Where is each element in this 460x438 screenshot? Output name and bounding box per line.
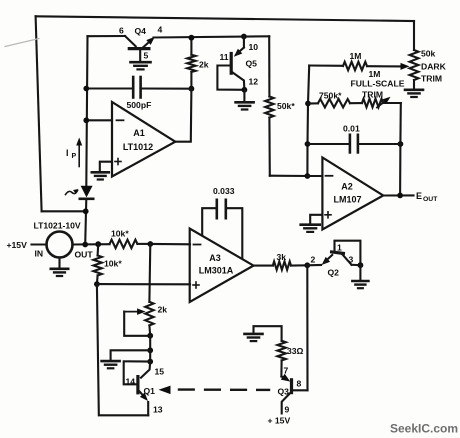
node dot 10k divider top [95, 241, 101, 247]
wire bottom return loop [97, 284, 148, 415]
wire inner-left vertical node column [86, 36, 87, 186]
wire 50k* to A2 inverting node [270, 175, 308, 177]
svg-text:10k*: 10k* [104, 259, 122, 269]
op-amp A3 LM301A [190, 229, 254, 303]
resistor 33ohm [277, 341, 285, 361]
svg-text:OUT: OUT [75, 250, 94, 260]
svg-text:1M: 1M [350, 51, 362, 61]
svg-text:3k: 3k [277, 252, 287, 262]
wire A1 output to feedback column [175, 89, 191, 142]
potentiometer 50k dark trim [410, 50, 419, 80]
A3 minus sign [194, 244, 201, 246]
node dot 0.01 junction [305, 141, 311, 147]
svg-text:0.033: 0.033 [213, 186, 235, 196]
svg-text:2k: 2k [199, 60, 209, 70]
node dot A3 inverting branch [147, 241, 153, 247]
node dot feedback-cap right [398, 141, 404, 147]
svg-text:I: I [66, 148, 69, 158]
capacitor 0.033 [202, 208, 217, 235]
wire A3 minus node down to 2k pot [148, 244, 151, 302]
potentiometer 2k [145, 302, 153, 326]
A3 plus sign [193, 284, 199, 286]
wire to A3 noninverting input [97, 283, 190, 285]
wire Q2 node down to Q3 base [306, 265, 308, 390]
node dot 500pF left [83, 86, 89, 92]
svg-text:500pF: 500pF [127, 100, 152, 110]
svg-text:2k: 2k [158, 305, 168, 315]
op-amp A1 LT1012 [112, 102, 175, 177]
ground under dark trim [405, 89, 423, 92]
svg-text:13: 13 [153, 405, 163, 415]
svg-text:5: 5 [144, 51, 149, 61]
svg-text:Q3: Q3 [278, 387, 290, 397]
ground at A1 plus input [92, 171, 109, 174]
node dot wiper tie [147, 333, 153, 339]
svg-text:+ 15V: + 15V [268, 416, 291, 426]
svg-text:10: 10 [249, 42, 259, 52]
node dot 2k top [189, 35, 195, 41]
node dot 2k bottom [189, 86, 195, 92]
svg-text:LT1021-10V: LT1021-10V [34, 221, 81, 231]
node dot A2 inverting input [305, 173, 311, 179]
wire A2 noninverting to ground [310, 215, 322, 224]
ground under LT1021 [58, 258, 60, 269]
svg-text:50k*: 50k* [277, 101, 295, 111]
resistor 1M [309, 64, 343, 66]
2k pot wiper arrow [124, 311, 141, 313]
svg-text:LM301A: LM301A [199, 266, 234, 276]
ground under Q5 [243, 90, 245, 102]
svg-text:8: 8 [297, 379, 302, 389]
resistor 3k [273, 261, 291, 269]
A2 plus sign [325, 214, 331, 216]
wire top row to 50k* [268, 36, 270, 96]
wire ground branch Q1 [111, 350, 151, 360]
svg-text:IN: IN [35, 249, 44, 259]
svg-text:2: 2 [311, 255, 316, 265]
svg-text:15: 15 [155, 367, 165, 377]
wire top border [36, 16, 414, 21]
node dot photodiode column on OUT line [82, 242, 88, 248]
svg-text:FULL-SCALE: FULL-SCALE [351, 79, 405, 89]
wire left border bottom to photodiode node [42, 210, 86, 212]
wire A2 inverting column [307, 66, 309, 177]
svg-text:0.01: 0.01 [343, 124, 360, 134]
svg-text:TRIM: TRIM [362, 90, 383, 100]
2k pot wiper loop wire [124, 312, 150, 336]
svg-text:Q1: Q1 [144, 386, 156, 396]
svg-text:Q5: Q5 [246, 59, 258, 69]
svg-text:7: 7 [284, 366, 289, 376]
node dot Q5 bottom [242, 87, 248, 93]
svg-text:Q4: Q4 [135, 26, 147, 36]
potentiometer 1M full-scale trim [362, 99, 383, 107]
svg-text:50k: 50k [421, 49, 436, 59]
svg-text:LT1012: LT1012 [123, 142, 153, 152]
node dot ground branch [147, 347, 153, 353]
wire A1 inverting input [86, 119, 112, 121]
node dot photodiode-border junction [83, 208, 89, 214]
op-amp A2 LM107 [322, 158, 383, 230]
svg-text:Q2: Q2 [328, 268, 340, 278]
resistor 10k* vertical [97, 244, 100, 255]
node dot Q5 emitter top [241, 34, 247, 40]
resistor 10k* horizontal [110, 240, 138, 248]
light squiggle at photodiode [66, 191, 78, 195]
wire 33ohm top to ground [254, 326, 282, 341]
svg-text:12: 12 [249, 77, 259, 87]
node dot A1 inverting input [83, 117, 89, 123]
A1 plus sign [115, 161, 121, 163]
transistor Q2 [307, 264, 321, 266]
svg-text:OUT: OUT [423, 196, 438, 203]
wire 2k bottom to Q1 [149, 336, 151, 362]
dashed thermal coupling arrow [159, 386, 171, 395]
ground above Q3 [245, 333, 263, 336]
wire A2 output [383, 194, 413, 196]
svg-text:A3: A3 [209, 253, 221, 263]
svg-text:33Ω: 33Ω [287, 346, 304, 356]
svg-text:TRIM: TRIM [421, 74, 442, 84]
transistor Q4 [125, 36, 136, 46]
node dot Q1 collector-base tie [147, 359, 153, 365]
svg-text:10k*: 10k* [111, 229, 129, 239]
svg-text:P: P [72, 153, 77, 160]
svg-text:3: 3 [349, 255, 354, 265]
resistor 750k* [308, 102, 318, 104]
wire 3k to Q2 node [291, 264, 307, 266]
A1 minus sign [117, 119, 124, 121]
ground near Q1 [102, 360, 120, 363]
wire A1 noninverting input to ground [100, 162, 112, 172]
ground under Q2 [359, 265, 361, 280]
svg-text:E: E [416, 191, 422, 201]
svg-text:6: 6 [119, 26, 124, 36]
svg-text:SeekIC.com: SeekIC.com [390, 422, 458, 436]
wire left border [36, 16, 42, 211]
node dot 10k bottom [94, 281, 100, 287]
voltage reference LT1021-10V circle [47, 232, 73, 258]
svg-text:LM107: LM107 [333, 195, 361, 205]
transistor Q5 [243, 37, 245, 48]
svg-text:4: 4 [158, 25, 163, 35]
wire full-scale trim down to output node [399, 103, 402, 195]
resistor 2k [190, 38, 192, 55]
A2 minus sign [326, 175, 333, 177]
svg-text:DARK: DARK [421, 62, 447, 72]
svg-text:14: 14 [126, 377, 136, 387]
node dot A2 output [397, 193, 403, 199]
svg-text:11: 11 [220, 52, 229, 62]
wire photodiode cathode to node [85, 199, 86, 245]
svg-text:A2: A2 [341, 182, 353, 192]
wire A2 inverting input [307, 175, 322, 177]
wire right border down to dark trim [413, 21, 415, 50]
svg-text:A1: A1 [133, 128, 145, 138]
svg-text:1M: 1M [369, 69, 381, 79]
node dot Q2 right [358, 262, 364, 268]
capacitor 0.01 [308, 143, 350, 145]
node dot 750k junction [305, 101, 311, 107]
wire LT1021 output line [73, 243, 110, 245]
transistor Q1 [141, 362, 150, 378]
svg-text:+15V: +15V [7, 240, 28, 250]
current label Ip arrow [78, 143, 80, 167]
svg-text:9: 9 [285, 405, 290, 415]
ground under Q4 [131, 61, 151, 64]
wire inner top horizontal to Q4 [88, 35, 126, 37]
resistor 50k* [265, 97, 273, 118]
photodiode [81, 186, 93, 198]
1M wiper arrow into dark trim [401, 63, 410, 70]
full-scale trim wiper arrow [377, 100, 387, 108]
capacitor 500pF [86, 87, 133, 89]
wire A3 output [254, 265, 273, 267]
wire top row Q4 to 50k corner [154, 36, 270, 37]
ground at A2 plus [301, 223, 320, 226]
faint scan scratch top-left [5, 39, 39, 47]
svg-text:1: 1 [337, 243, 342, 253]
node dot Q2 emitter node [304, 262, 310, 268]
wire +15V input [32, 243, 47, 245]
svg-text:750k*: 750k* [319, 91, 342, 101]
transistor Q3 [281, 377, 286, 380]
